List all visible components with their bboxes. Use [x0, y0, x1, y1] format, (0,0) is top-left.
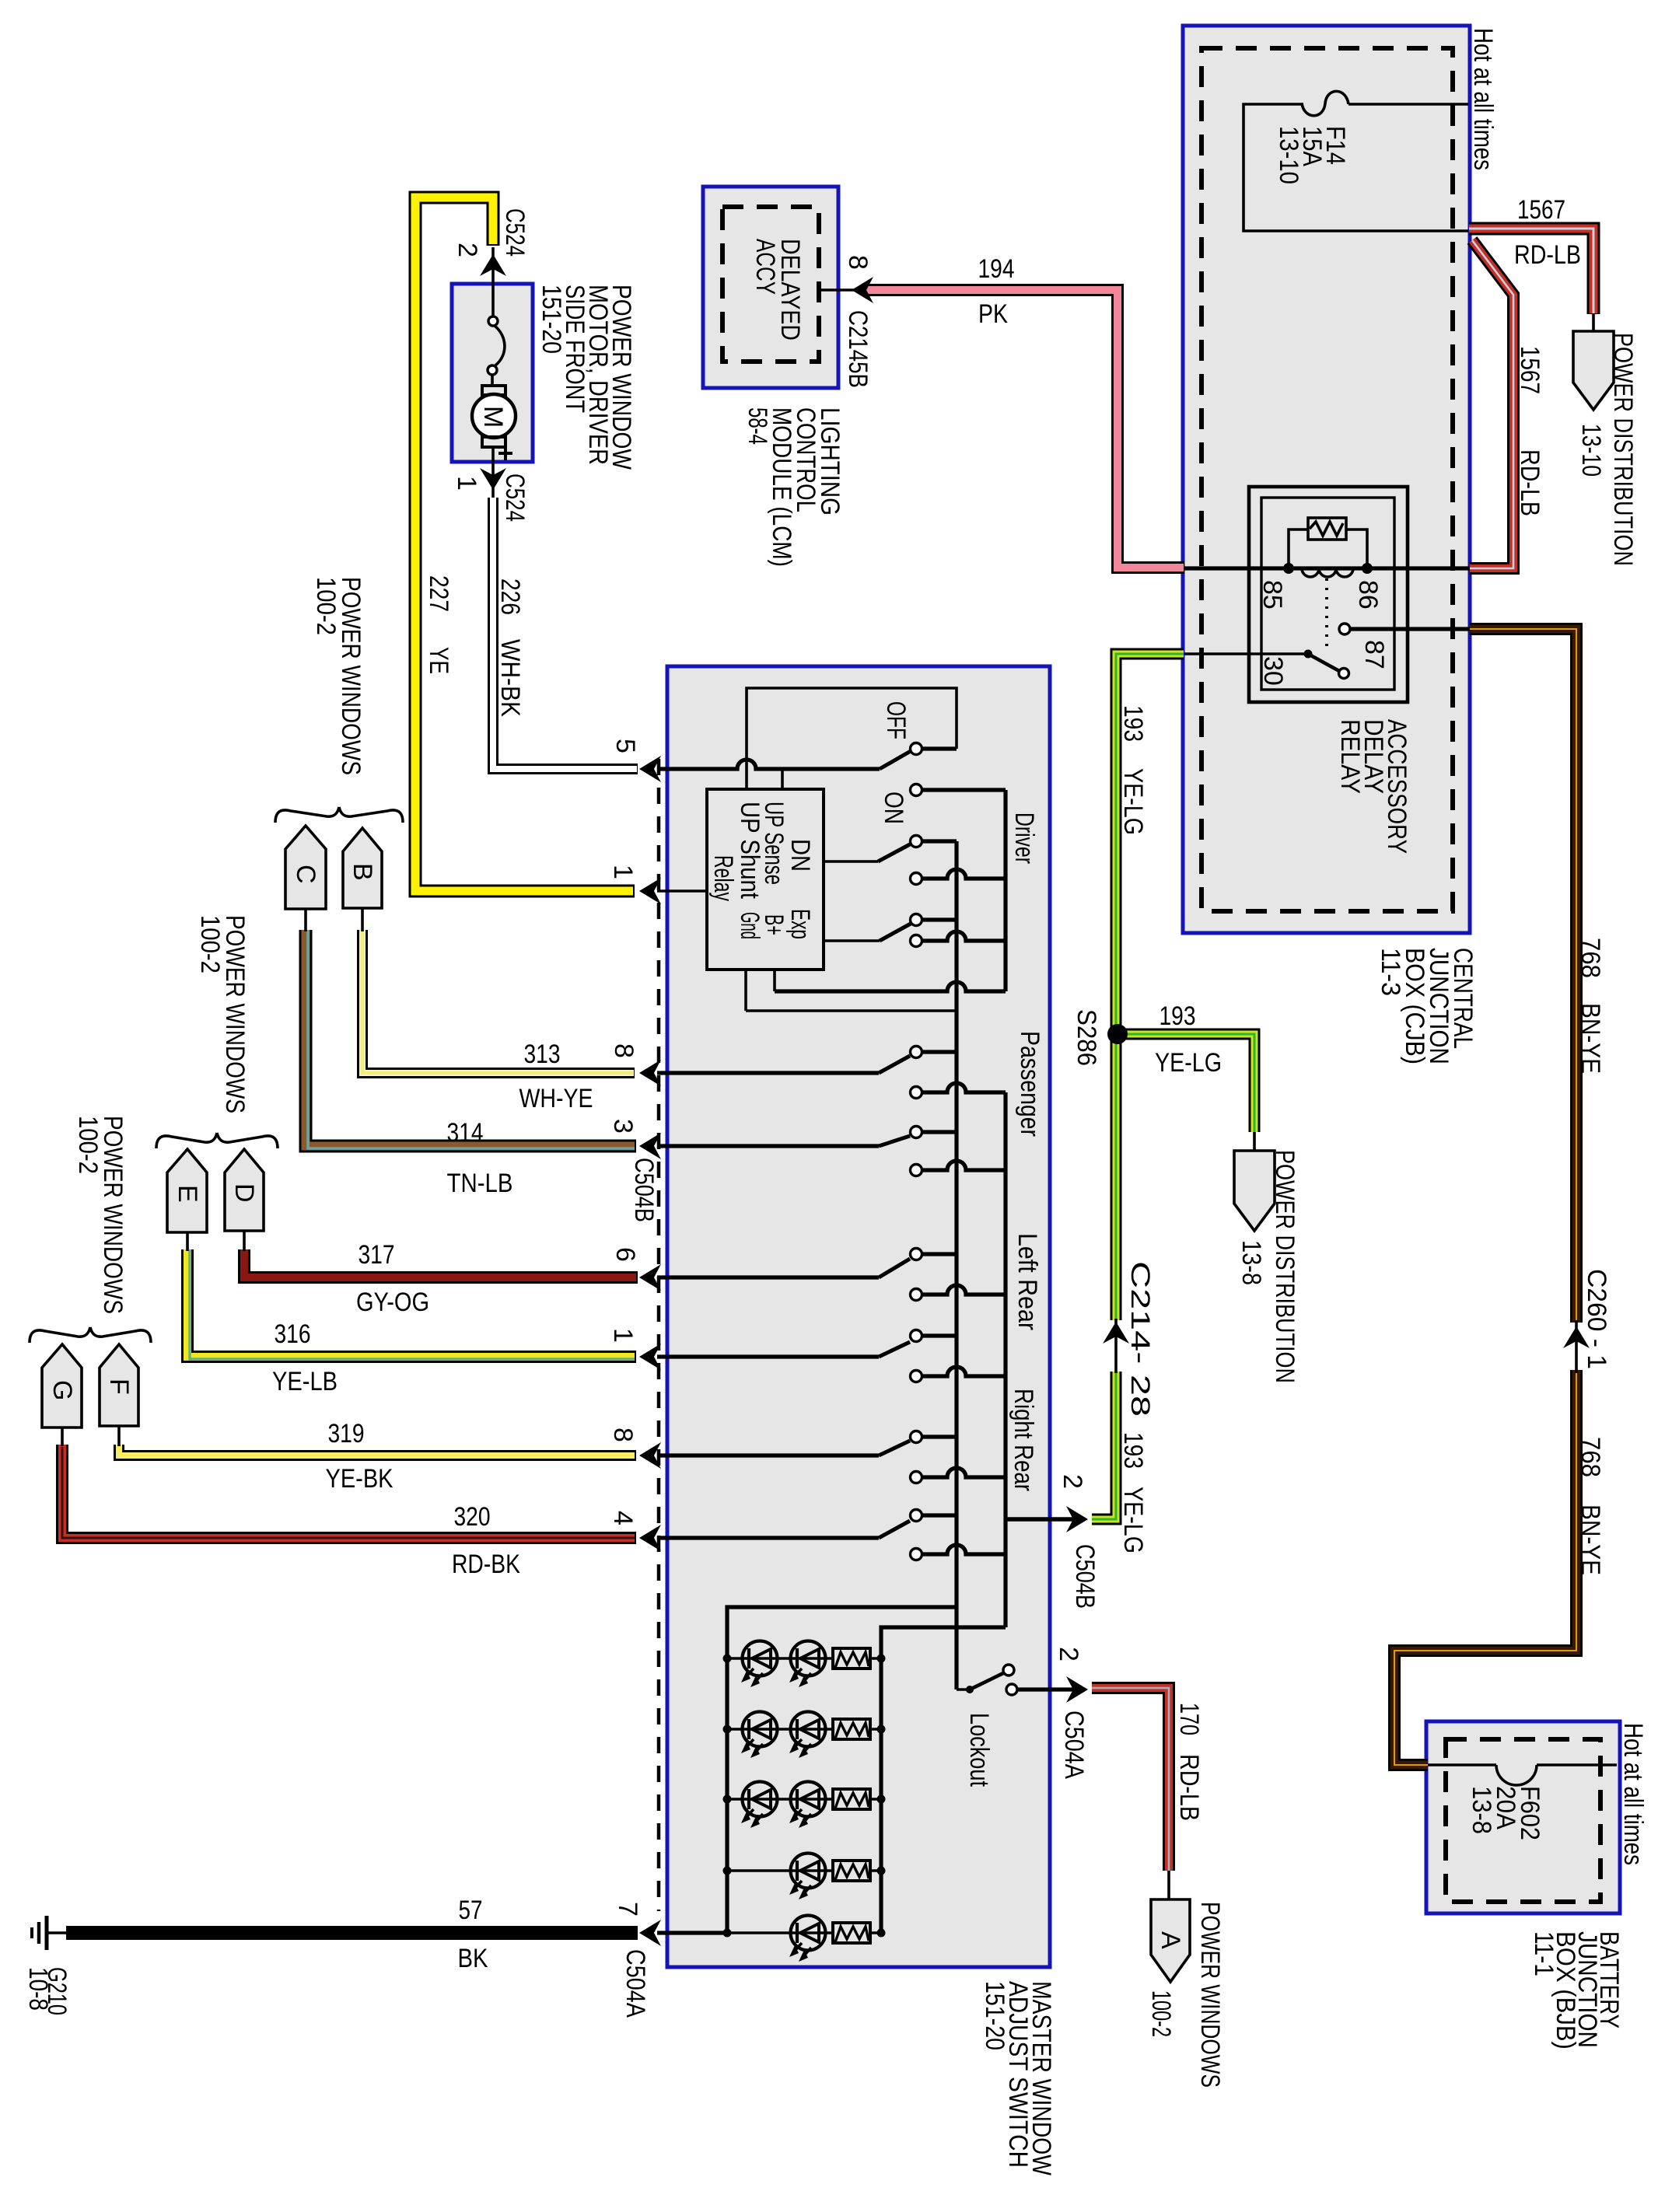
svg-text:B: B	[348, 863, 377, 881]
svg-text:YE-BK: YE-BK	[326, 1464, 394, 1494]
svg-text:WH-BK: WH-BK	[495, 639, 525, 717]
svg-text:GY-OG: GY-OG	[356, 1288, 429, 1317]
svg-text:4: 4	[608, 1511, 638, 1525]
svg-text:2: 2	[1054, 1647, 1083, 1662]
svg-text:30: 30	[1258, 656, 1288, 686]
svg-text:1: 1	[608, 865, 638, 879]
svg-text:RD-LB: RD-LB	[1515, 449, 1544, 516]
svg-text:POWER DISTRIBUTION: POWER DISTRIBUTION	[1270, 1150, 1299, 1383]
svg-text:193: 193	[1160, 1001, 1196, 1031]
svg-text:F: F	[104, 1379, 134, 1395]
svg-text:87: 87	[1359, 640, 1389, 669]
svg-text:Passenger: Passenger	[1015, 1031, 1044, 1137]
svg-text:C524: C524	[500, 208, 530, 257]
svg-text:S286: S286	[1072, 1009, 1101, 1066]
svg-text:13-8: 13-8	[1237, 1240, 1266, 1285]
svg-text:ON: ON	[879, 791, 908, 824]
svg-text:1567: 1567	[1515, 346, 1544, 394]
svg-text:PK: PK	[978, 299, 1008, 329]
svg-text:D: D	[229, 1183, 259, 1203]
svg-text:M: M	[478, 406, 508, 428]
svg-text:Relay: Relay	[708, 855, 738, 901]
svg-text:86: 86	[1353, 580, 1383, 610]
svg-text:313: 313	[524, 1040, 561, 1069]
svg-text:2: 2	[1058, 1474, 1087, 1489]
svg-text:1: 1	[608, 1328, 638, 1343]
svg-text:227: 227	[424, 575, 453, 612]
svg-text:BN-YE: BN-YE	[1576, 1003, 1605, 1074]
svg-text:193: 193	[1118, 1432, 1148, 1469]
svg-text:POWER DISTRIBUTION: POWER DISTRIBUTION	[1608, 333, 1638, 566]
svg-text:2: 2	[453, 243, 482, 257]
svg-text:POWER WINDOWS: POWER WINDOWS	[1195, 1902, 1225, 2088]
svg-text:C504A: C504A	[1059, 1711, 1089, 1779]
svg-text:Hot at all times: Hot at all times	[1468, 28, 1498, 170]
svg-text:YE-LG: YE-LG	[1155, 1048, 1222, 1078]
svg-text:Driver: Driver	[1009, 812, 1039, 864]
svg-text:BN-YE: BN-YE	[1576, 1504, 1605, 1575]
svg-text:G: G	[47, 1380, 77, 1400]
svg-text:TN-LB: TN-LB	[447, 1169, 513, 1198]
svg-text:UP Shunt: UP Shunt	[735, 802, 764, 899]
svg-text:Left Rear: Left Rear	[1013, 1233, 1042, 1330]
svg-text:YE-LB: YE-LB	[272, 1367, 338, 1396]
svg-text:C: C	[291, 865, 320, 884]
svg-text:Gnd: Gnd	[735, 912, 764, 939]
svg-text:C504B: C504B	[1070, 1544, 1100, 1609]
svg-text:RD-LB: RD-LB	[1514, 240, 1581, 270]
svg-text:320: 320	[454, 1502, 491, 1532]
svg-text:316: 316	[275, 1319, 311, 1349]
svg-text:57: 57	[459, 1896, 483, 1925]
svg-text:3: 3	[608, 1119, 638, 1134]
svg-text:YE-LG: YE-LG	[1118, 768, 1148, 835]
svg-text:WH-YE: WH-YE	[519, 1084, 593, 1113]
svg-text:319: 319	[328, 1419, 365, 1448]
svg-text:194: 194	[978, 254, 1015, 284]
svg-text:10-8: 10-8	[23, 1967, 53, 2011]
svg-text:Right Rear: Right Rear	[1009, 1389, 1038, 1491]
svg-text:C2145B: C2145B	[843, 310, 873, 388]
svg-text:DN: DN	[785, 839, 815, 872]
svg-text:5: 5	[610, 739, 640, 753]
svg-text:1: 1	[452, 476, 481, 491]
svg-text:170: 170	[1174, 1703, 1204, 1735]
svg-text:C504B: C504B	[629, 1158, 659, 1222]
svg-text:C260 - 1: C260 - 1	[1582, 1269, 1611, 1369]
svg-text:226: 226	[495, 578, 525, 615]
svg-text:317: 317	[359, 1240, 395, 1270]
svg-text:100-2: 100-2	[1146, 1990, 1176, 2037]
svg-text:RD-LB: RD-LB	[1174, 1754, 1204, 1821]
svg-text:7: 7	[613, 1902, 642, 1917]
svg-text:RD-BK: RD-BK	[452, 1550, 520, 1579]
svg-text:C524: C524	[500, 474, 530, 522]
svg-text:YE-LG: YE-LG	[1118, 1487, 1148, 1553]
svg-text:8: 8	[608, 1427, 638, 1442]
svg-text:314: 314	[447, 1118, 484, 1148]
svg-text:1567: 1567	[1517, 195, 1565, 225]
svg-text:Hot at all times: Hot at all times	[1618, 1723, 1648, 1865]
svg-text:768: 768	[1576, 1437, 1605, 1477]
svg-text:YE: YE	[424, 647, 453, 674]
svg-text:85: 85	[1257, 580, 1287, 610]
svg-text:13-10: 13-10	[1576, 424, 1606, 477]
svg-text:8: 8	[843, 255, 873, 270]
svg-text:Exp: Exp	[785, 909, 815, 939]
svg-text:8: 8	[609, 1043, 638, 1058]
svg-text:768: 768	[1576, 938, 1605, 978]
svg-text:A: A	[1156, 1931, 1185, 1949]
svg-text:E: E	[173, 1185, 202, 1203]
svg-text:BK: BK	[458, 1944, 488, 1973]
svg-text:C504A: C504A	[621, 1949, 650, 2018]
svg-text:OFF: OFF	[881, 701, 911, 739]
svg-text:Lockout: Lockout	[964, 1713, 994, 1787]
svg-text:C214- 28: C214- 28	[1125, 1261, 1155, 1417]
svg-text:193: 193	[1118, 705, 1148, 742]
svg-text:6: 6	[610, 1247, 640, 1262]
